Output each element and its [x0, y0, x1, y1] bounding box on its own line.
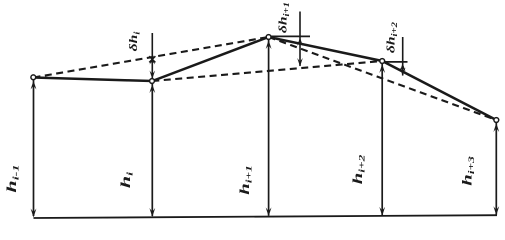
node 3 circle	[266, 35, 271, 40]
arrowhead down at baseline x=152.3	[149, 208, 155, 217]
dim delta-h_i arrow up at dashed A	[150, 57, 156, 65]
arrowhead down at baseline x=268.6	[266, 207, 272, 216]
dim delta-h_i arrow down at node2	[150, 71, 156, 80]
cross mark X at delta-h_i top	[149, 56, 155, 62]
wire vertical h_i+2	[381, 64, 383, 215]
tick at node4 height	[383, 61, 408, 63]
dim delta-h_i+2 arrow up at tick	[400, 63, 406, 72]
arrowhead up at node3	[266, 40, 272, 49]
wire vertical h_i+3	[495, 123, 497, 215]
arrowhead down at baseline x=33.5	[31, 209, 37, 218]
svg-text:δhi: δhi	[127, 31, 142, 51]
dim delta-h_i+1 arrow up at tick	[297, 37, 303, 46]
arrowhead up at node2	[149, 84, 155, 93]
dashed interpolation line B (n2 to n4)	[152, 61, 382, 81]
node 2 circle	[150, 79, 155, 84]
arrowhead down at baseline x=496.3	[493, 206, 499, 215]
arrowhead down at baseline x=382.2	[379, 207, 385, 216]
dim delta-h_i+1 arrow down at dashed B	[297, 58, 303, 67]
node 5 circle	[494, 118, 499, 123]
baseline	[34, 215, 498, 218]
dim delta-h_i+2 arrow down	[400, 68, 406, 77]
tick at peak height	[270, 35, 310, 37]
arrowhead up at node1	[31, 81, 37, 90]
node 1 circle	[31, 75, 36, 80]
wire vertical h_i+1	[268, 40, 270, 216]
arrowhead up at node5	[493, 123, 499, 132]
dashed interpolation line A (n1 to n3)	[34, 37, 269, 78]
dimension line delta-h_i+2	[402, 37, 404, 76]
arrowhead up at node4	[379, 64, 385, 73]
wire vertical h_i-1	[33, 80, 35, 216]
wire vertical h_i	[151, 84, 153, 216]
dashed interpolation line C (n3 to n5)	[269, 37, 497, 120]
solid profile polyline	[34, 37, 497, 120]
node 4 circle	[380, 59, 385, 64]
dimension line delta-h_i+1	[299, 12, 301, 67]
dimension line delta-h_i	[151, 33, 153, 80]
